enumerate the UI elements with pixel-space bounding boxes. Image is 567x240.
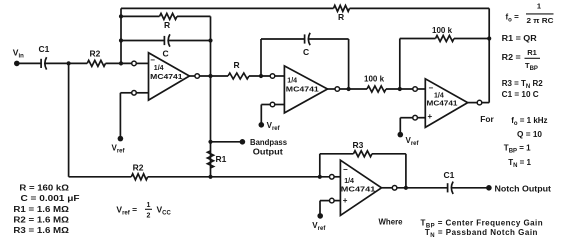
- wire C1 to node, down-branch junction: [45, 62, 87, 64]
- svg-text:R1: R1: [216, 154, 227, 164]
- op-amp U2 (1/4 MC4741): [270, 66, 339, 113]
- svg-text:C1: C1: [39, 44, 50, 54]
- formula fo = 1 kHz: [511, 116, 547, 127]
- resistor R (loop feedback, top): [334, 5, 350, 22]
- svg-text:VCC: VCC: [157, 205, 172, 217]
- resistor R1: [208, 151, 227, 168]
- resistor 100 k (U3 feedback): [432, 26, 454, 42]
- wire U1 R-feedback top: [121, 15, 211, 17]
- wire U1 non-inv input to Vref: [120, 93, 131, 139]
- svg-text:fo =: fo =: [506, 13, 520, 24]
- svg-text:MC4741: MC4741: [150, 72, 182, 81]
- resistor 100 k (U2 to U3): [364, 75, 386, 93]
- svg-text:+: +: [343, 196, 348, 205]
- svg-text:TN = Passband Notch Gain: TN = Passband Notch Gain: [425, 228, 538, 238]
- svg-text:−: −: [429, 84, 434, 93]
- svg-text:Notch Output: Notch Output: [495, 184, 552, 193]
- svg-text:MC4741: MC4741: [286, 85, 319, 94]
- terminal Vref (U1): [112, 136, 126, 155]
- svg-text:+: +: [428, 112, 433, 121]
- svg-text:1: 1: [537, 2, 541, 11]
- svg-text:2 π RC: 2 π RC: [527, 16, 555, 25]
- formula R2 = R1/TBP: [502, 48, 540, 72]
- value list R3 = 1.6 M-ohm: [13, 226, 69, 235]
- svg-text:Vin: Vin: [13, 47, 24, 59]
- junction U4 output node: [404, 186, 408, 190]
- svg-text:C1: C1: [444, 170, 455, 180]
- formula R3 = TN R2: [502, 79, 544, 90]
- value list R = 160 k-ohm: [19, 184, 69, 193]
- svg-text:Output: Output: [253, 147, 283, 156]
- svg-text:Vref: Vref: [267, 121, 281, 132]
- junction U3 feedback / loop line: [487, 36, 491, 40]
- wire bandpass takeoff: [211, 141, 243, 143]
- capacitor C1 (input coupling): [39, 44, 50, 70]
- text TBP = Center Frequency Gain: [421, 218, 544, 229]
- junction U1 C-feedback right: [208, 38, 212, 42]
- text TN = Passband Notch Gain: [425, 228, 538, 239]
- svg-text:R = 160 kΩ: R = 160 kΩ: [19, 184, 69, 193]
- resistor R2 (input): [87, 49, 105, 67]
- junction node A (U1 inv input): [119, 61, 123, 65]
- value list C = 0.001 uF: [21, 194, 80, 203]
- resistor R (U1 to U2): [228, 60, 249, 79]
- resistor R3 (U4 feedback): [353, 140, 373, 157]
- svg-text:R: R: [338, 12, 344, 22]
- resistor R (U1 feedback): [160, 13, 178, 30]
- svg-text:1/4: 1/4: [287, 76, 298, 85]
- wire R2 to op-amp U1 inverting input: [106, 62, 132, 64]
- wire U2 C-feedback: [261, 39, 349, 89]
- junction at input branch: [67, 61, 71, 65]
- text Where: [379, 218, 404, 227]
- formula Vref = 1/2 Vcc: [116, 202, 171, 220]
- value list R1 = 1.6 M-ohm: [13, 205, 69, 214]
- svg-text:For: For: [480, 115, 494, 124]
- svg-text:TBP: TBP: [525, 61, 538, 72]
- capacitor C1 (notch output): [444, 170, 455, 194]
- svg-text:R2: R2: [90, 49, 101, 59]
- svg-text:R: R: [164, 20, 170, 30]
- terminal Bandpass Output: [240, 138, 288, 156]
- input terminal Vin: [13, 47, 24, 66]
- svg-text:R3: R3: [353, 140, 364, 150]
- svg-text:100 k: 100 k: [364, 75, 385, 84]
- wire U4 R3-feedback: [320, 154, 406, 188]
- svg-text:100 k: 100 k: [432, 26, 453, 35]
- formula TBP = 1: [504, 144, 531, 155]
- svg-text:TN = 1: TN = 1: [508, 158, 531, 169]
- svg-text:C1 = 10 C: C1 = 10 C: [502, 90, 539, 99]
- svg-text:R: R: [234, 60, 240, 70]
- formula fo = 1/(2 pi RC): [506, 2, 555, 26]
- svg-text:Vref: Vref: [112, 144, 126, 155]
- capacitor C (U1 feedback): [163, 34, 170, 58]
- svg-text:R3 = 1.6 MΩ: R3 = 1.6 MΩ: [13, 226, 69, 235]
- wire Vin to C1: [17, 62, 41, 64]
- wire C1 to notch terminal: [451, 187, 489, 189]
- svg-text:R3 = TN R2: R3 = TN R2: [502, 79, 544, 90]
- wire U1 output to resistor R: [200, 75, 228, 77]
- svg-text:1/4: 1/4: [154, 63, 165, 72]
- wire left down-branch to bottom rail: [68, 63, 70, 176]
- svg-text:R2 =: R2 =: [502, 53, 521, 62]
- wire U3 feedback riser: [400, 39, 489, 90]
- svg-text:MC4741: MC4741: [341, 185, 376, 194]
- svg-text:2: 2: [147, 213, 151, 220]
- svg-text:Vref: Vref: [406, 136, 420, 147]
- text For: [480, 115, 494, 124]
- svg-text:−: −: [343, 165, 348, 174]
- junction U2 output node: [347, 87, 351, 91]
- svg-text:C: C: [303, 47, 309, 57]
- resistor R2 (bottom): [131, 162, 147, 180]
- svg-text:Q = 10: Q = 10: [517, 130, 543, 139]
- wire R to U2 inverting input: [249, 75, 270, 77]
- svg-text:Where: Where: [379, 218, 404, 227]
- wire bottom rail: [69, 176, 330, 178]
- svg-text:C: C: [163, 49, 169, 59]
- capacitor C (U2 feedback): [303, 33, 310, 57]
- junction R1 bottom / rail: [208, 175, 212, 179]
- wire U2 non-inv input to Vref: [261, 105, 270, 126]
- formula TN = 1: [508, 158, 531, 169]
- wire U3 non-inv input to Vref: [400, 118, 412, 135]
- svg-text:Vref: Vref: [312, 221, 326, 232]
- wire vertical bus node B: [210, 16, 212, 176]
- wire U4 non-inv input to Vref: [320, 201, 329, 216]
- junction node G (U4 inv input): [318, 175, 322, 179]
- svg-text:R1 = QR: R1 = QR: [502, 34, 537, 43]
- junction bandpass node: [208, 140, 212, 144]
- junction node A / R feedback: [119, 14, 123, 18]
- wire vertical feedback bus at node A: [120, 8, 122, 63]
- wire 100k to U3 inverting input: [386, 88, 413, 90]
- svg-text:fo = 1 kHz: fo = 1 kHz: [511, 116, 547, 127]
- wire U2 output to 100k: [340, 88, 367, 90]
- svg-text:1: 1: [147, 202, 151, 209]
- terminal Vref (U4): [312, 213, 326, 232]
- wire U4 output to C1: [397, 187, 448, 189]
- svg-text:R2 = 1.6 MΩ: R2 = 1.6 MΩ: [13, 215, 69, 224]
- svg-text:R1 = 1.6 MΩ: R1 = 1.6 MΩ: [13, 205, 69, 214]
- svg-text:Vref =: Vref =: [116, 205, 137, 217]
- svg-text:C = 0.001 μF: C = 0.001 μF: [21, 194, 80, 203]
- terminal Vref (U3): [398, 132, 420, 147]
- formula R1 = QR: [502, 34, 537, 43]
- svg-text:R1: R1: [527, 48, 537, 57]
- op-amp U3 (1/4 MC4741): [413, 79, 482, 128]
- junction node C (U2 inv input): [259, 74, 263, 78]
- terminal Notch Output: [486, 184, 551, 193]
- value list R2 = 1.6 M-ohm: [13, 215, 69, 224]
- formula C1 = 10 C: [502, 90, 539, 99]
- junction node D (U3 inv input): [398, 87, 402, 91]
- wire U1 C-feedback: [121, 40, 211, 42]
- junction node A / C feedback: [119, 38, 123, 42]
- wire vertical bus node F (U3 output to top): [482, 8, 489, 102]
- wire top feedback line: [121, 7, 489, 9]
- svg-text:TBP = 1: TBP = 1: [504, 144, 531, 155]
- op-amp U1 (1/4 MC4741): [132, 53, 200, 100]
- svg-text:R2: R2: [133, 162, 144, 172]
- formula Q = 10: [517, 130, 543, 139]
- junction U1 output node: [208, 74, 212, 78]
- svg-text:Bandpass: Bandpass: [250, 138, 288, 147]
- svg-text:MC4741: MC4741: [427, 98, 458, 107]
- op-amp U4 (1/4 MC4741): [330, 160, 397, 215]
- terminal Vref (U2): [259, 121, 281, 132]
